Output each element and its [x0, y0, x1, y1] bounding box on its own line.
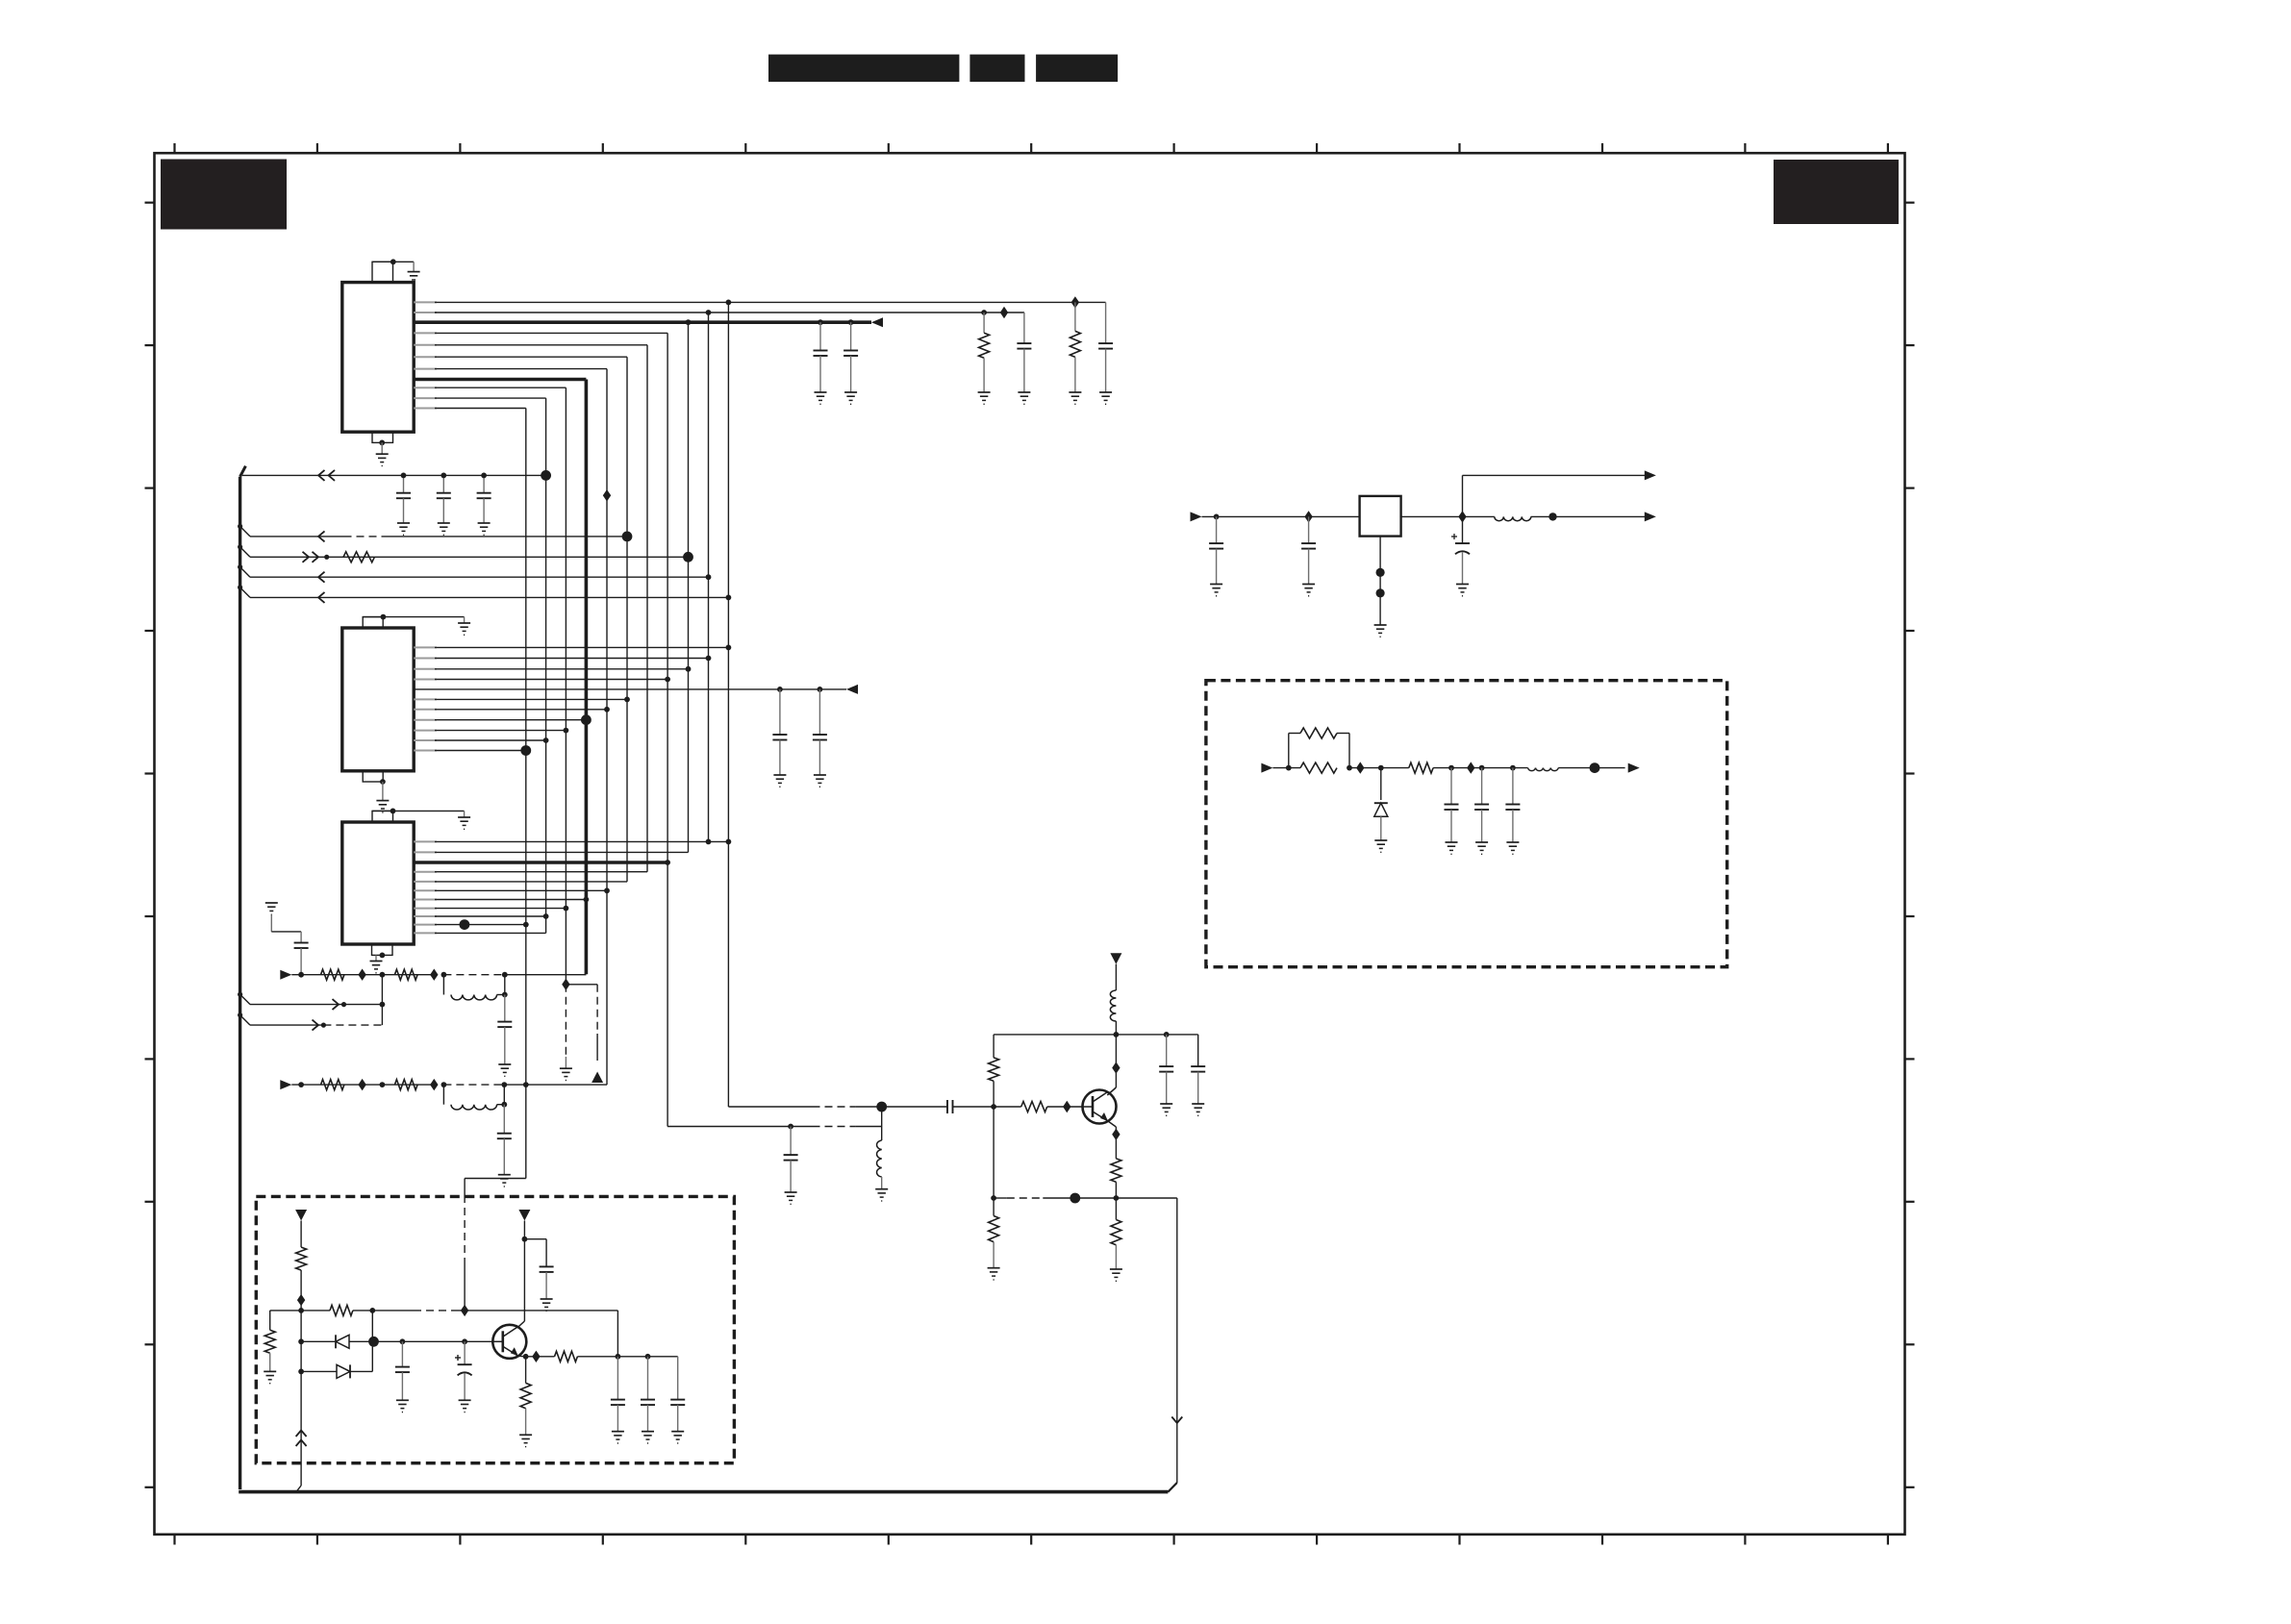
capacitor C4: [843, 322, 858, 392]
resistor R16: [989, 1216, 999, 1242]
inductor L4: [877, 1107, 882, 1189]
bus vertical 7: [646, 345, 648, 872]
wire v1 jog: [465, 1179, 526, 1311]
ground U2 top: [458, 623, 470, 635]
U2 bottom pin box: [363, 771, 383, 782]
junction diamond row1 b: [430, 969, 438, 981]
direction chevrons: [296, 1431, 307, 1447]
ground C18: [1160, 1104, 1172, 1115]
wire rail left drop: [993, 1035, 994, 1058]
left bus: [240, 466, 246, 1489]
diode D2: [301, 1364, 372, 1378]
capacitor C27: [1505, 768, 1520, 842]
node U1 top pin: [390, 259, 396, 264]
resistor R15: [1111, 1159, 1121, 1182]
wire U1 pin9 elbow: [414, 387, 566, 388]
supply arrow V2: [518, 1210, 530, 1221]
ground R17: [1110, 1269, 1122, 1281]
wire Q2 emitter: [518, 1354, 529, 1384]
node row1 a: [298, 972, 304, 978]
ground L4: [875, 1189, 888, 1201]
capacitor C17: [670, 1357, 685, 1432]
wire V1: [300, 1221, 302, 1248]
node row2 e: [523, 1082, 529, 1087]
wire R15 down: [1115, 1182, 1117, 1198]
wire U2 top pin: [363, 617, 464, 623]
zener diode D3: [1374, 768, 1388, 840]
resistor R1: [1070, 302, 1080, 392]
ground C1: [1099, 392, 1112, 404]
node U2 bottom pin: [380, 779, 386, 785]
wire base to R: [994, 1106, 1021, 1108]
resistor R17: [1111, 1220, 1121, 1245]
wire U2 pin1: [414, 645, 731, 651]
frame tick marks: [145, 143, 1915, 1545]
ground U3 bottom: [370, 962, 383, 973]
wire L3 down: [1115, 1021, 1117, 1035]
input arrow reg: [1191, 512, 1202, 521]
ground C27: [1506, 842, 1519, 854]
wire U2 pin8: [414, 714, 592, 725]
node C5: [401, 473, 407, 479]
junction diamond v3: [562, 979, 569, 990]
wire bias row: [301, 1310, 330, 1312]
wire R8 down: [296, 1270, 301, 1492]
title bar 3: [1036, 55, 1118, 83]
bus vertical 5: [606, 369, 608, 1086]
output arrow reg main: [1645, 512, 1656, 521]
ground C17: [671, 1432, 684, 1443]
ground C11: [498, 1064, 511, 1076]
capacitor C1: [1098, 302, 1113, 392]
wire U4 gnd pin: [1376, 537, 1385, 625]
wire U2 pin6: [414, 697, 630, 703]
resistor R2: [979, 312, 990, 392]
inductor L1 loop: [443, 975, 507, 1000]
capacitor C26: [1474, 768, 1489, 842]
transistor Q2: [492, 1325, 526, 1359]
ground R2: [978, 392, 991, 404]
inductor L5: [1495, 516, 1531, 520]
ground U4: [1374, 625, 1387, 637]
resistor R20: [1409, 762, 1433, 773]
wire R16 gnd: [993, 1198, 994, 1268]
wire U2 pin4: [414, 677, 670, 683]
supply arrow V1: [295, 1210, 307, 1221]
ground C3: [815, 392, 827, 404]
capacitor C23: [1301, 516, 1316, 595]
input arrow row2: [280, 1080, 291, 1089]
wire Q2 collector: [517, 1221, 527, 1328]
inductor L2 loop: [443, 1085, 507, 1110]
wire Q1 emitter: [1108, 1121, 1116, 1159]
ground C16: [642, 1432, 654, 1443]
ground D3: [1374, 840, 1387, 852]
wire row2 vertical stub: [381, 1084, 383, 1086]
direction chevron bottom: [1171, 1417, 1182, 1424]
wire A (RF in): [242, 470, 551, 481]
junction diamond Q1b: [1063, 1101, 1070, 1112]
wire R14 to base: [1047, 1106, 1083, 1108]
bus vertical 11: [727, 302, 729, 1107]
capacitor C18: [1159, 1035, 1173, 1104]
arrow wire B: [318, 531, 325, 541]
wire U3 pin6: [414, 887, 610, 893]
wire U3 pin3 thick: [414, 860, 670, 865]
capacitor C15: [611, 1357, 625, 1432]
capacitor C10 with ground: [265, 903, 309, 975]
ground C4: [844, 392, 857, 404]
resistor R13: [989, 1058, 999, 1081]
arrow wire G: [313, 1020, 327, 1031]
wire U1 bottom pin: [381, 442, 383, 454]
thick bottom wire: [239, 1483, 1177, 1492]
node row2 c: [441, 1082, 447, 1087]
junction diamond filter b: [1467, 762, 1474, 773]
border frame: [155, 153, 1905, 1535]
wire U3 pin8: [414, 906, 568, 912]
ground R9: [264, 1371, 276, 1383]
wire U1 pin11 elbow: [414, 408, 526, 410]
wire U1 pin10 elbow: [414, 397, 545, 399]
ground C12: [498, 1175, 511, 1187]
resistor R14: [1021, 1102, 1047, 1112]
capacitor C11: [497, 995, 512, 1065]
arrow wire C: [303, 552, 330, 562]
inductor L6: [1528, 768, 1559, 771]
wire U3 pin1: [414, 839, 731, 845]
node bias a: [298, 1308, 304, 1313]
corner label box top-left: [161, 160, 287, 230]
capacitor C6: [437, 475, 451, 535]
wire U3 pin4: [414, 871, 647, 873]
node C7: [481, 473, 487, 479]
resistor R5: [394, 969, 417, 980]
capacitor C12: [497, 1105, 512, 1175]
capacitor C13: [395, 1341, 410, 1412]
regulator U4: [1360, 496, 1401, 537]
IC U1: [342, 283, 414, 433]
wire U3 pin10: [414, 919, 528, 930]
wire U1 pin5 elbow: [414, 344, 647, 346]
title bar 1: [768, 55, 959, 83]
resistor R3: [343, 552, 374, 562]
capacitor C16: [641, 1357, 655, 1432]
arrow wire F: [333, 999, 347, 1010]
U1 bottom pin box: [372, 432, 393, 442]
node row1 b: [380, 972, 386, 978]
resistor R12: [555, 1351, 578, 1362]
node U3 bottom pin: [380, 953, 386, 959]
wire R17 gnd: [1115, 1198, 1117, 1269]
resistor R7: [394, 1080, 417, 1090]
node C6: [441, 473, 446, 479]
wire D: [238, 564, 711, 580]
wire U3 pin2: [414, 851, 688, 853]
wire Q2 base: [374, 1338, 493, 1344]
wire U3 pin7: [414, 897, 589, 903]
junction diamond row2 b: [430, 1079, 438, 1090]
IC U2: [342, 628, 414, 771]
ground C19: [1192, 1104, 1204, 1115]
junction diamond reg in: [1304, 511, 1312, 522]
supply arrow V3: [1110, 953, 1121, 964]
wire U2 pin11: [414, 745, 531, 756]
resistor R8: [296, 1247, 307, 1270]
ground R1: [1069, 392, 1081, 404]
capacitor C8: [772, 689, 787, 787]
ground C26: [1475, 842, 1488, 854]
capacitor C24 electrolytic: [1451, 516, 1470, 584]
U1 top pin box: [372, 262, 393, 282]
node bias b: [298, 1338, 304, 1344]
U3 bottom pin box: [372, 944, 393, 955]
node bias c: [298, 1369, 304, 1375]
wire U1 pin3 thick net: [414, 319, 871, 325]
title bar 2: [969, 55, 1024, 83]
node row2 a: [298, 1082, 304, 1087]
output arrow reg top: [1645, 470, 1656, 480]
ground C25: [1446, 842, 1458, 854]
wire V3: [1115, 964, 1117, 990]
capacitor C19: [1191, 1035, 1205, 1104]
wire reg out branch: [1463, 475, 1646, 516]
capacitor C5: [396, 475, 411, 535]
wire U2 pin3: [414, 666, 691, 672]
ground V2 cap: [541, 1299, 553, 1311]
wire U3 top pin: [372, 811, 465, 817]
resistor R18 parallel top: [1289, 728, 1349, 768]
capacitor C9: [813, 689, 827, 787]
wire RC row2: [291, 1084, 607, 1086]
wire emitter out2: [577, 1354, 677, 1360]
capacitor C3: [814, 322, 828, 392]
wire U3 pin9: [414, 913, 548, 919]
ground U2 bottom: [376, 801, 389, 812]
wire reg in: [1202, 514, 1360, 520]
U3 top pin box: [372, 811, 393, 822]
ground C21: [785, 1192, 797, 1204]
wire reg out: [1401, 515, 1495, 517]
off-page arrow U2 pin5: [846, 685, 858, 694]
bus vertical 4 thick: [585, 380, 589, 975]
wire R11 down: [525, 1409, 527, 1436]
node row1 c: [441, 972, 447, 978]
wire G: [238, 1012, 382, 1025]
junction diamond row1 a: [358, 969, 365, 981]
bus vertical 8: [667, 333, 668, 1126]
wire diode join: [368, 1311, 379, 1372]
wire filter c: [1433, 765, 1528, 771]
wire v3 branch: [566, 985, 597, 1061]
wire U3 bottom pin: [375, 955, 377, 961]
wire bias row2: [353, 1305, 618, 1316]
ground U3 top: [458, 817, 470, 829]
wire bias left: [270, 1311, 301, 1330]
bus vertical 9: [688, 322, 690, 852]
junction diamond filter a: [1356, 762, 1364, 773]
resistor R11: [520, 1383, 531, 1408]
junction diamond R8: [297, 1294, 305, 1306]
ground v3: [560, 1068, 572, 1080]
junction diamond pin2: [1000, 307, 1008, 318]
wire U1 pin1 net: [414, 300, 1105, 306]
arrow wire E: [318, 592, 325, 603]
wire U1 top pin: [372, 262, 414, 271]
wire emitter out: [526, 1356, 555, 1358]
capacitor C2: [1017, 312, 1031, 392]
inductor L3: [1110, 990, 1116, 1021]
wire collector rail: [994, 1032, 1198, 1037]
junction diamond Q1c: [1112, 1062, 1120, 1073]
wire filter b: [1349, 765, 1409, 771]
wire U2 pin7: [414, 707, 610, 712]
resistor R6: [321, 1080, 344, 1090]
wire U1 pin4 elbow: [414, 332, 667, 334]
wire base feedback vertical: [617, 1311, 618, 1357]
resistor R9: [264, 1330, 275, 1353]
wire input2: [667, 1124, 882, 1130]
resistor R10: [330, 1305, 353, 1315]
capacitor C20 series: [947, 1100, 994, 1113]
wire Q1 bottom: [991, 1193, 1177, 1204]
wire U2 pin10: [414, 737, 548, 743]
wire E: [238, 585, 731, 600]
bus vertical 1: [525, 409, 527, 1179]
resistor R19 parallel bottom: [1300, 762, 1337, 773]
junction diamond row2 a: [358, 1079, 365, 1090]
bus vertical 6: [626, 357, 628, 882]
wire V2 branch cap: [524, 1239, 553, 1299]
junction diamond reg out: [1458, 511, 1466, 522]
wire filter a: [1272, 765, 1300, 771]
diode D1: [301, 1335, 373, 1348]
wire v3 dashed ground: [565, 985, 566, 1068]
node Q1 base divider: [991, 1104, 996, 1110]
wire filter out: [1558, 762, 1624, 773]
node row2 b: [380, 1082, 386, 1087]
node U2 top pin: [381, 614, 387, 620]
node U1 bottom pin: [379, 440, 385, 446]
wire Q1 collector: [1107, 1035, 1116, 1095]
dashed box filter: [1206, 681, 1727, 967]
wire U3 pin11: [414, 932, 545, 934]
capacitor C14 electrolytic: [455, 1341, 472, 1400]
junction diamond pin1: [1071, 296, 1079, 308]
ground C24: [1456, 585, 1469, 596]
ground R11: [519, 1435, 532, 1446]
arrow wire D: [318, 572, 325, 583]
arrow wire A: [318, 470, 335, 481]
wire R9 down: [269, 1353, 271, 1371]
wire C: [238, 544, 693, 562]
node U3 top pin: [390, 809, 396, 814]
wire vertical row1: [381, 975, 383, 1025]
wire U1 pin7 elbow: [414, 368, 607, 370]
input arrow filter: [1261, 763, 1272, 773]
terminal arrow v3: [592, 1072, 603, 1084]
wire U3 pin5: [414, 881, 627, 883]
output arrow filter: [1628, 763, 1640, 773]
wire RC row1: [291, 974, 586, 976]
wire bottom drop: [1176, 1198, 1178, 1483]
ground U1 bottom: [376, 454, 389, 465]
ground C15: [612, 1432, 624, 1443]
ground C14: [459, 1400, 471, 1412]
junction diamond v5: [603, 489, 611, 501]
wire reg out2: [1531, 512, 1646, 520]
bus vertical 3: [565, 387, 566, 985]
junction diamond Q2e: [532, 1351, 540, 1362]
node row2 d: [501, 1082, 507, 1087]
corner label box top-right: [1774, 160, 1899, 224]
bus vertical 2: [545, 398, 547, 933]
node row1 d: [502, 972, 508, 978]
wire R13 down: [993, 1081, 994, 1198]
capacitor C7: [477, 475, 491, 535]
input arrow row1: [280, 970, 291, 980]
wire Q1 base net: [728, 1102, 947, 1112]
ground C2: [1018, 392, 1030, 404]
transistor Q1: [1083, 1090, 1117, 1124]
ground U1 top: [408, 272, 420, 284]
wire U1 pin2 net: [414, 310, 1024, 315]
resistor R4: [321, 969, 344, 980]
wire U2 bottom pin: [382, 782, 384, 801]
IC U3: [342, 822, 414, 944]
capacitor C25: [1445, 768, 1459, 842]
ground R16: [988, 1268, 1000, 1280]
wire U1 pin8 elbow: [414, 378, 586, 382]
U2 top pin box: [363, 617, 383, 628]
wire U2 pin5 net: [414, 687, 846, 692]
capacitor C21: [784, 1127, 798, 1193]
dashed box oscillator: [256, 1196, 734, 1462]
wire F: [238, 992, 385, 1008]
wire U2 pin2: [414, 656, 711, 662]
wire B: [238, 524, 632, 541]
wire U2 pin9: [414, 728, 568, 734]
capacitor C22: [1209, 516, 1223, 595]
bus vertical 10: [708, 312, 710, 841]
off-page arrow pin3: [871, 317, 883, 327]
junction diamond Q1e: [1112, 1129, 1120, 1140]
wire U1 pin6 elbow: [414, 356, 627, 358]
node filter b: [1347, 765, 1352, 771]
